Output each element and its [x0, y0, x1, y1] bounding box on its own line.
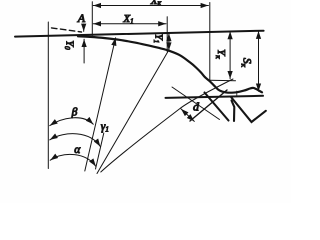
dimension Y1 double arrow [168, 33, 170, 50]
wire dashed tangent at A [52, 28, 82, 32]
wire radial line F1 to curve with arrow [85, 38, 116, 171]
wire Y0 lower arrow pointing up to curve [83, 39, 85, 63]
wire tooth flank diagonal TX2 [190, 90, 227, 121]
svg-text:Sк: Sк [240, 58, 253, 68]
wire tooth stub [232, 101, 235, 122]
wire short radial line M [96, 133, 104, 169]
wire radial line F2 through Y1 point [97, 50, 169, 173]
wire radial line F3 to d region [101, 79, 233, 172]
svg-text:Y0: Y0 [63, 40, 75, 50]
wire main horizontal axis line [15, 31, 264, 37]
svg-text:Xк: Xк [150, 0, 162, 7]
wire small tick near blade end [236, 91, 238, 97]
svg-text:γ1: γ1 [101, 121, 109, 134]
angle arc gamma1 [50, 134, 101, 147]
dimension Yk [229, 31, 231, 78]
dimension Xk [93, 5, 208, 7]
svg-text:X1: X1 [122, 13, 133, 26]
wire blade outer edge diagonal [205, 93, 229, 121]
svg-text:β: β [71, 107, 78, 119]
wire thin wheel edge diagonal [172, 87, 220, 120]
angle arc beta [50, 118, 94, 126]
wire tooth back profile curve [78, 36, 262, 92]
wire blade V notch [231, 97, 266, 122]
wire vertical reference line [47, 22, 49, 169]
wire extension line at x=167 [166, 17, 168, 52]
svg-text:A: A [77, 11, 86, 25]
svg-text:Yк: Yк [214, 49, 227, 59]
dimension X1 [93, 23, 166, 25]
svg-text:α: α [74, 144, 81, 156]
dimension d double arrow [181, 109, 194, 122]
wire arrow pointing down to point A [83, 24, 85, 31]
wire lower blade line [166, 96, 264, 98]
dimension Sk [258, 31, 260, 91]
wire extension line at x=210 [209, 3, 211, 81]
svg-text:Y1: Y1 [152, 34, 164, 43]
wire shelf line at curve end [210, 79, 236, 81]
angle arc alpha [50, 154, 96, 166]
wire extension line at x=92 [91, 2, 93, 36]
